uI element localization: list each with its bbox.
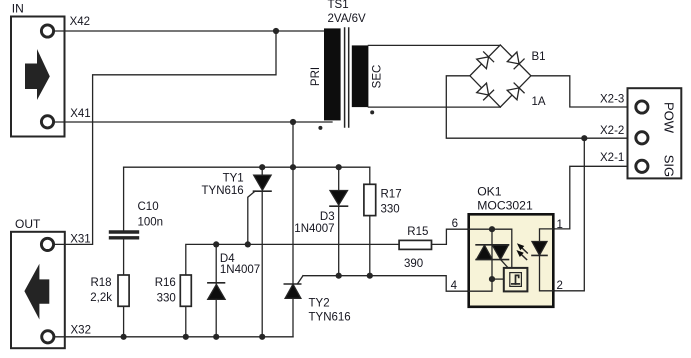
- wire C10 top lead: [123, 167, 125, 230]
- terminal X2-1: [636, 160, 648, 172]
- svg-text:2VA/6V: 2VA/6V: [328, 13, 366, 25]
- diode D4: [208, 244, 225, 336]
- LED inside optocoupler: [532, 229, 553, 291]
- terminal X41: [41, 116, 53, 128]
- node junction opto top: [489, 226, 495, 232]
- transformer core: [344, 28, 346, 127]
- node junction R17 bottom: [367, 273, 373, 279]
- wire secondary bottom to bridge: [368, 106, 500, 108]
- svg-text:OK1: OK1: [477, 185, 502, 199]
- svg-text:6: 6: [452, 218, 458, 230]
- svg-text:R15: R15: [407, 226, 428, 238]
- wire TY1 cathode to bottom rail: [261, 191, 263, 337]
- op-amp: optocoupler OK1 body: [469, 214, 554, 306]
- connector OUT box: [11, 232, 65, 348]
- transformer TS1 secondary winding: [352, 45, 369, 107]
- resistor R16: [180, 275, 191, 306]
- bridge rectifier B1 diamond: [470, 45, 531, 107]
- svg-text:390: 390: [404, 258, 423, 270]
- node junction D3 cathode: [336, 273, 342, 279]
- wire optocoupler pin2 to X2-2: [553, 138, 584, 291]
- svg-text:2,2k: 2,2k: [90, 292, 112, 304]
- svg-text:330: 330: [381, 204, 400, 216]
- zero-crossing detector box: [492, 268, 527, 292]
- terminal X42: [41, 25, 53, 37]
- svg-text:X2-2: X2-2: [600, 125, 624, 137]
- wire R18 to bottom rail: [123, 306, 125, 337]
- diode D3: [330, 191, 348, 207]
- wire bridge plus to X2-3: [531, 76, 628, 107]
- resistor R18: [118, 275, 129, 306]
- wire TY2 gate rail to optocoupler pin4: [303, 276, 469, 292]
- node junction D4 top: [213, 241, 219, 247]
- svg-text:MOC3021: MOC3021: [477, 199, 533, 213]
- light arrow 1: [517, 243, 527, 253]
- node junction R16 bottom: [183, 334, 189, 340]
- wire D3 leads: [338, 167, 340, 190]
- svg-text:C10: C10: [138, 201, 159, 213]
- thyristor TY2: [284, 276, 303, 299]
- thyristor TY1: [248, 167, 271, 244]
- wire X2-1 to optocoupler pin1: [553, 166, 627, 229]
- terminal X32: [42, 331, 54, 343]
- svg-text:OUT: OUT: [15, 217, 41, 231]
- optocoupler internal jog to zero-cross: [492, 229, 512, 268]
- light arrow 2: [516, 250, 526, 260]
- terminal X31: [41, 238, 53, 250]
- node junction D4 bottom: [213, 334, 219, 340]
- wire gate net rail: [186, 244, 399, 276]
- wire X41 to transformer: [54, 121, 332, 123]
- node junction TY1 bottom: [259, 334, 265, 340]
- svg-text:2: 2: [557, 280, 563, 292]
- primary phase dot: [318, 126, 322, 130]
- svg-text:X2-1: X2-1: [600, 152, 624, 164]
- wire X41 net down to TY2 cathode: [292, 122, 294, 284]
- wire TY2 anode to bottom rail corner: [292, 298, 294, 337]
- connector IN box: [11, 17, 65, 137]
- svg-text:TYN616: TYN616: [202, 185, 244, 197]
- svg-text:POW: POW: [662, 102, 677, 134]
- node junction R18 bottom: [121, 334, 127, 340]
- svg-text:TY2: TY2: [309, 298, 330, 310]
- optocoupler internal vertical: [469, 229, 492, 291]
- optocoupler internal pin6 wire: [469, 228, 492, 230]
- svg-text:SEC: SEC: [372, 65, 384, 89]
- node junction on X42 wire: [273, 28, 279, 34]
- terminal X2-2: [636, 132, 648, 144]
- svg-text:X41: X41: [70, 108, 90, 120]
- IN arrow: [25, 49, 50, 100]
- wire R17 bottom lead: [369, 216, 371, 276]
- svg-text:R17: R17: [381, 189, 402, 201]
- terminal X2-3: [636, 101, 648, 113]
- secondary phase dot: [370, 110, 374, 114]
- svg-text:D3: D3: [320, 211, 335, 223]
- bridge diode bottom-right: [507, 83, 524, 100]
- resistor R17: [364, 184, 376, 215]
- node junction D3 anode: [336, 164, 342, 170]
- svg-text:X32: X32: [71, 325, 91, 337]
- transformer TS1 primary winding: [324, 28, 341, 120]
- svg-text:TS1: TS1: [328, 0, 349, 11]
- svg-text:PRI: PRI: [310, 67, 322, 86]
- resistor R15: [399, 240, 431, 249]
- bridge diode bottom-left: [477, 83, 494, 100]
- node junction opto bottom: [489, 276, 495, 282]
- node junction on X41 wire: [290, 119, 296, 125]
- wire C10 to R18: [123, 240, 125, 276]
- wire R17 top lead: [369, 167, 371, 184]
- bridge diode top-right: [507, 52, 524, 69]
- svg-text:R18: R18: [90, 277, 111, 289]
- wire gate rail TY1 top: [124, 166, 370, 168]
- wire X42 to transformer: [54, 30, 332, 32]
- svg-text:100n: 100n: [138, 217, 164, 229]
- wire secondary top to bridge: [368, 44, 500, 46]
- node junction TY1 anode: [259, 164, 265, 170]
- wire R16 to bottom rail: [185, 306, 187, 337]
- svg-text:1A: 1A: [532, 96, 546, 108]
- triac inside optocoupler: [476, 245, 508, 268]
- svg-text:B1: B1: [532, 51, 546, 63]
- svg-text:330: 330: [157, 292, 176, 304]
- wire X31 lower rail: [54, 243, 92, 245]
- svg-text:TY1: TY1: [223, 173, 244, 185]
- capacitor C10: [111, 232, 138, 238]
- node junction X41 riser: [290, 164, 296, 170]
- svg-text:TYN616: TYN616: [309, 311, 351, 323]
- svg-text:X2-3: X2-3: [600, 94, 624, 106]
- wire bottom rail X32: [55, 336, 294, 338]
- svg-text:X42: X42: [70, 16, 90, 28]
- svg-text:SIG: SIG: [662, 155, 677, 177]
- svg-text:X31: X31: [70, 234, 90, 246]
- wire R15 to optocoupler pin6: [432, 229, 469, 244]
- connector X2 box: [628, 88, 682, 178]
- svg-text:IN: IN: [12, 2, 24, 16]
- node junction pin2 tap on X2-2: [581, 135, 587, 141]
- OUT arrow: [24, 264, 49, 320]
- svg-text:1N4007: 1N4007: [294, 223, 334, 235]
- svg-text:R16: R16: [155, 277, 176, 289]
- node junction TY1 gate: [245, 241, 251, 247]
- wire bridge minus to X2-2 rail: [446, 76, 627, 138]
- svg-text:1N4007: 1N4007: [220, 264, 260, 276]
- bridge diode top-left: [477, 52, 494, 69]
- wire X42 net down-left to X31: [93, 31, 276, 244]
- svg-text:4: 4: [451, 280, 458, 292]
- svg-text:1: 1: [557, 219, 563, 231]
